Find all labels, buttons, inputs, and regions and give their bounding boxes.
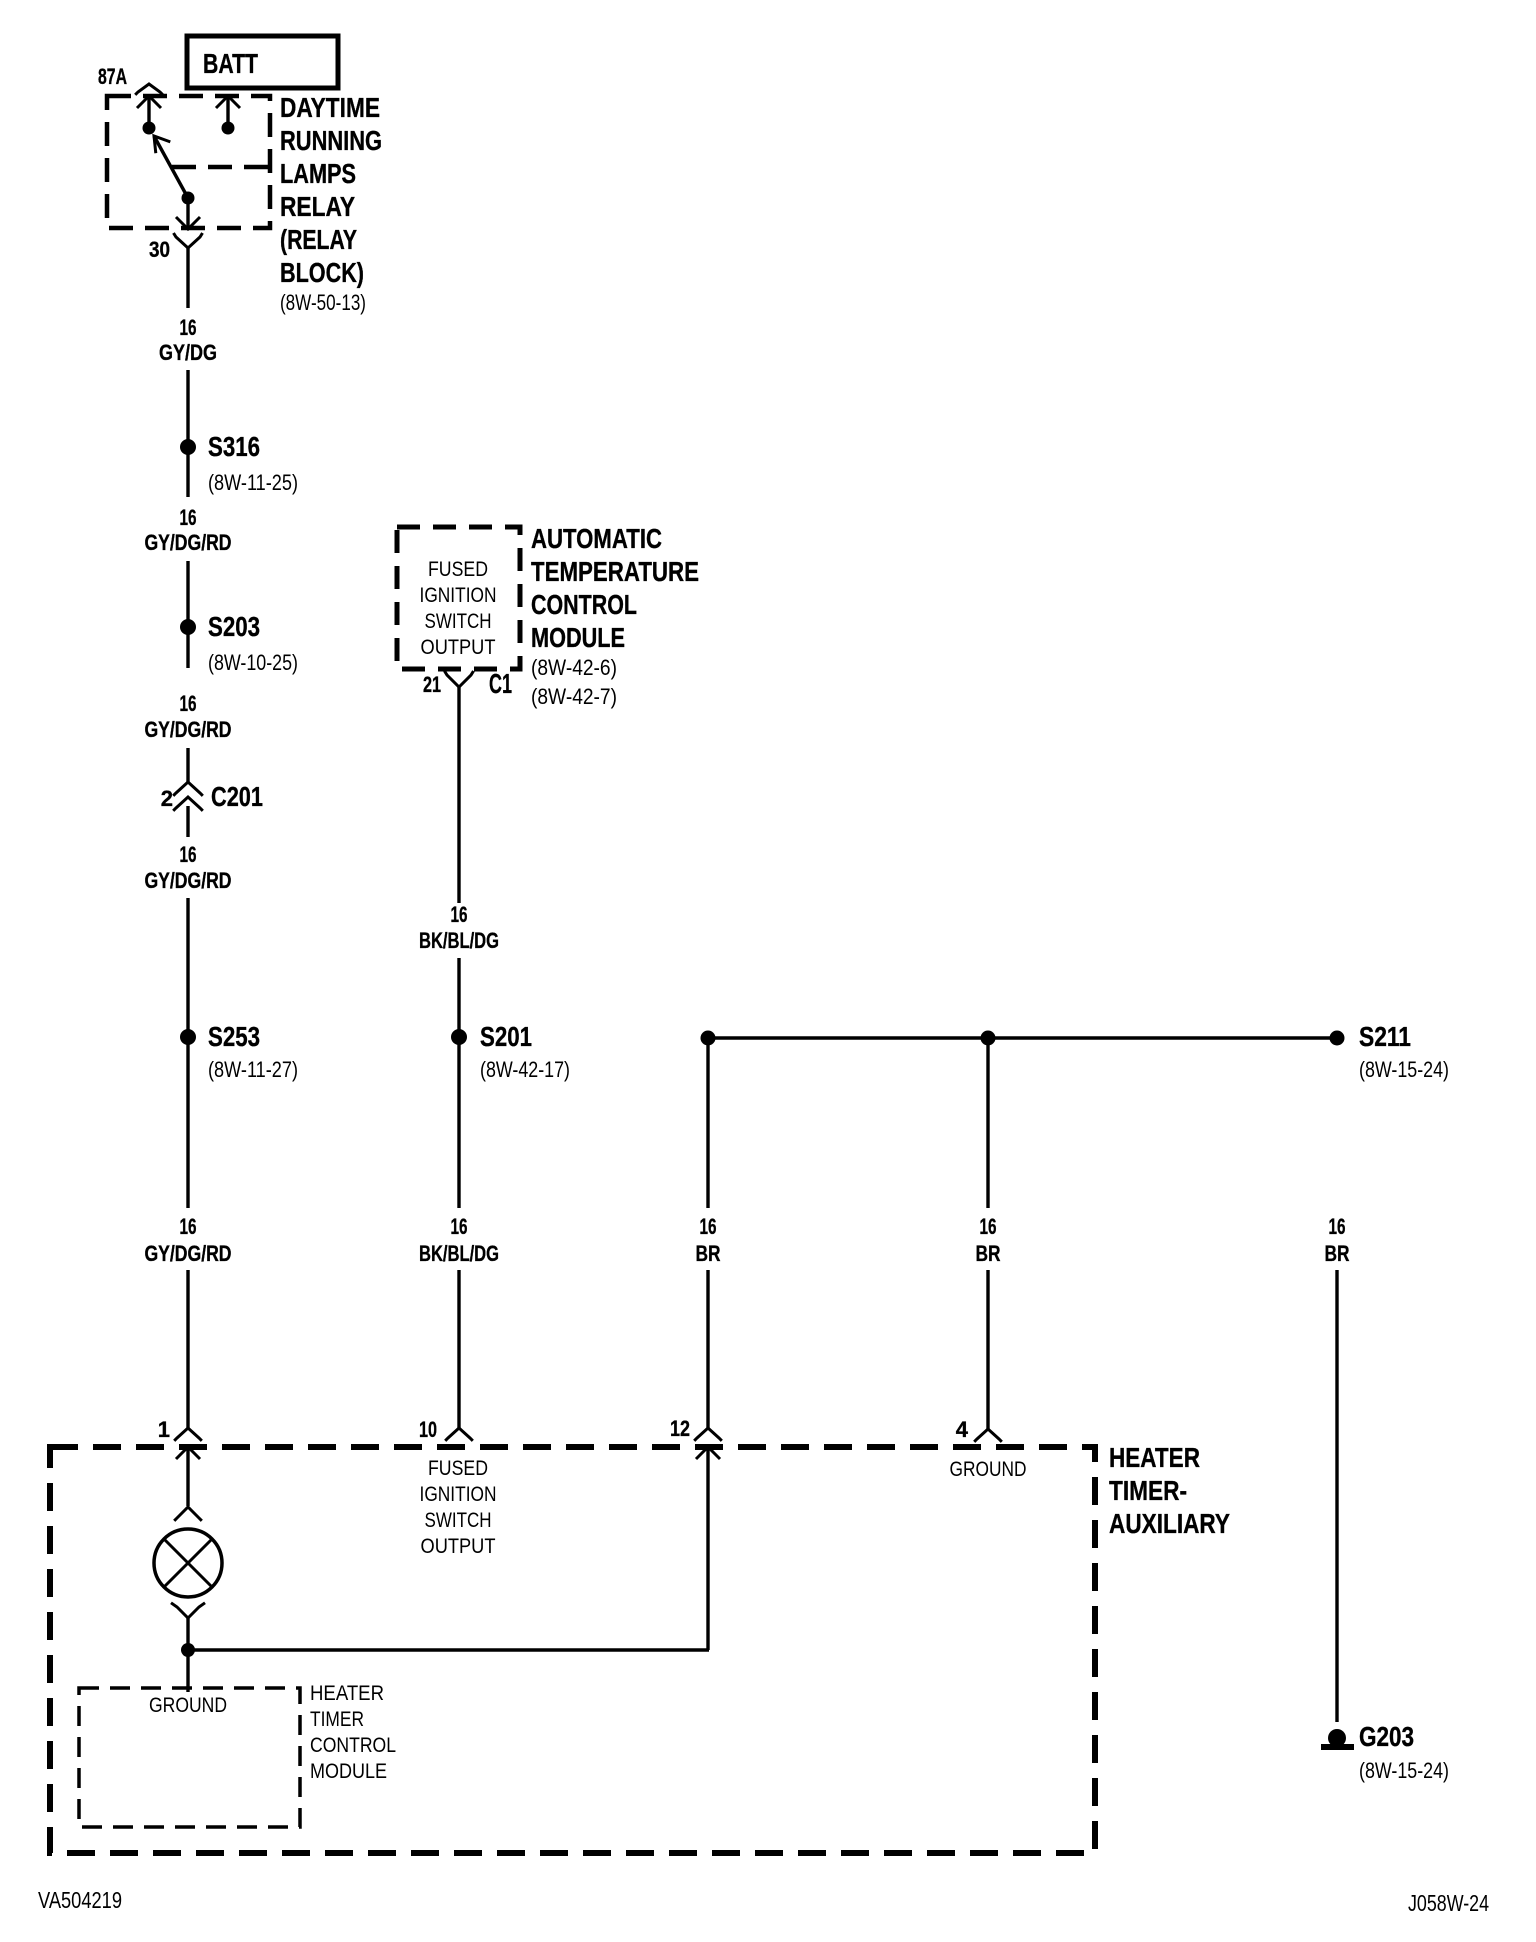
svg-text:1: 1: [158, 1417, 170, 1442]
svg-text:VA504219: VA504219: [38, 1887, 122, 1913]
svg-text:HEATER: HEATER: [1109, 1442, 1200, 1473]
svg-text:AUTOMATIC: AUTOMATIC: [531, 523, 662, 554]
svg-text:16: 16: [451, 1214, 468, 1239]
svg-text:(8W-15-24): (8W-15-24): [1359, 1057, 1449, 1082]
svg-text:30: 30: [149, 237, 170, 262]
svg-text:RUNNING: RUNNING: [280, 125, 382, 156]
svg-text:GY/DG: GY/DG: [159, 340, 217, 365]
svg-text:LAMPS: LAMPS: [280, 158, 356, 189]
svg-text:OUTPUT: OUTPUT: [421, 1535, 496, 1558]
svg-text:16: 16: [180, 505, 197, 530]
svg-text:C201: C201: [211, 781, 263, 812]
svg-text:AUXILIARY: AUXILIARY: [1109, 1508, 1230, 1539]
svg-text:16: 16: [180, 842, 197, 867]
svg-text:IGNITION: IGNITION: [420, 1483, 497, 1506]
svg-text:16: 16: [700, 1214, 717, 1239]
svg-text:J058W-24: J058W-24: [1408, 1890, 1489, 1916]
svg-text:TIMER: TIMER: [310, 1708, 364, 1731]
svg-text:BATT: BATT: [203, 48, 258, 79]
svg-text:IGNITION: IGNITION: [420, 584, 497, 607]
svg-text:OUTPUT: OUTPUT: [421, 636, 496, 659]
svg-text:BR: BR: [1325, 1241, 1350, 1266]
svg-text:16: 16: [1329, 1214, 1346, 1239]
svg-text:S211: S211: [1359, 1021, 1411, 1052]
svg-text:16: 16: [180, 691, 197, 716]
svg-text:(8W-10-25): (8W-10-25): [208, 650, 298, 675]
svg-text:12: 12: [670, 1416, 690, 1441]
svg-text:GY/DG/RD: GY/DG/RD: [145, 717, 232, 742]
svg-text:16: 16: [451, 902, 468, 927]
svg-text:(8W-50-13): (8W-50-13): [280, 290, 366, 315]
svg-text:(8W-11-25): (8W-11-25): [208, 470, 298, 495]
svg-text:FUSED: FUSED: [428, 1457, 488, 1480]
svg-text:DAYTIME: DAYTIME: [280, 92, 380, 123]
svg-text:TIMER-: TIMER-: [1109, 1475, 1187, 1506]
svg-text:(8W-42-17): (8W-42-17): [480, 1057, 570, 1082]
svg-text:MODULE: MODULE: [310, 1760, 387, 1783]
svg-text:S201: S201: [480, 1021, 532, 1052]
svg-text:16: 16: [180, 1214, 197, 1239]
svg-text:RELAY: RELAY: [280, 191, 355, 222]
svg-text:TEMPERATURE: TEMPERATURE: [531, 556, 699, 587]
svg-text:CONTROL: CONTROL: [310, 1734, 396, 1757]
svg-text:GROUND: GROUND: [149, 1694, 227, 1717]
svg-text:10: 10: [419, 1417, 437, 1442]
svg-text:(RELAY: (RELAY: [280, 224, 357, 255]
svg-text:GY/DG/RD: GY/DG/RD: [145, 868, 232, 893]
svg-text:(8W-11-27): (8W-11-27): [208, 1057, 298, 1082]
svg-text:S253: S253: [208, 1021, 260, 1052]
svg-text:FUSED: FUSED: [428, 558, 488, 581]
svg-text:SWITCH: SWITCH: [425, 610, 492, 633]
svg-text:87A: 87A: [98, 64, 127, 89]
svg-text:(8W-15-24): (8W-15-24): [1359, 1758, 1449, 1783]
svg-text:HEATER: HEATER: [310, 1682, 384, 1705]
svg-text:SWITCH: SWITCH: [425, 1509, 492, 1532]
svg-text:C1: C1: [489, 668, 512, 699]
svg-text:G203: G203: [1359, 1721, 1414, 1752]
svg-text:(8W-42-7): (8W-42-7): [531, 684, 617, 709]
svg-text:CONTROL: CONTROL: [531, 589, 637, 620]
svg-text:S316: S316: [208, 431, 260, 462]
svg-text:4: 4: [956, 1417, 969, 1442]
svg-text:BK/BL/DG: BK/BL/DG: [419, 1241, 499, 1266]
svg-text:GY/DG/RD: GY/DG/RD: [145, 1241, 232, 1266]
svg-text:2: 2: [161, 786, 173, 811]
svg-text:GROUND: GROUND: [950, 1458, 1027, 1481]
svg-text:16: 16: [180, 315, 197, 340]
svg-text:BK/BL/DG: BK/BL/DG: [419, 928, 499, 953]
svg-text:BR: BR: [976, 1241, 1001, 1266]
svg-text:BLOCK): BLOCK): [280, 257, 364, 288]
svg-text:(8W-42-6): (8W-42-6): [531, 655, 617, 680]
svg-text:S203: S203: [208, 611, 260, 642]
svg-text:GY/DG/RD: GY/DG/RD: [145, 530, 232, 555]
svg-text:BR: BR: [696, 1241, 721, 1266]
svg-text:21: 21: [423, 672, 441, 697]
svg-text:MODULE: MODULE: [531, 622, 625, 653]
svg-text:16: 16: [980, 1214, 997, 1239]
